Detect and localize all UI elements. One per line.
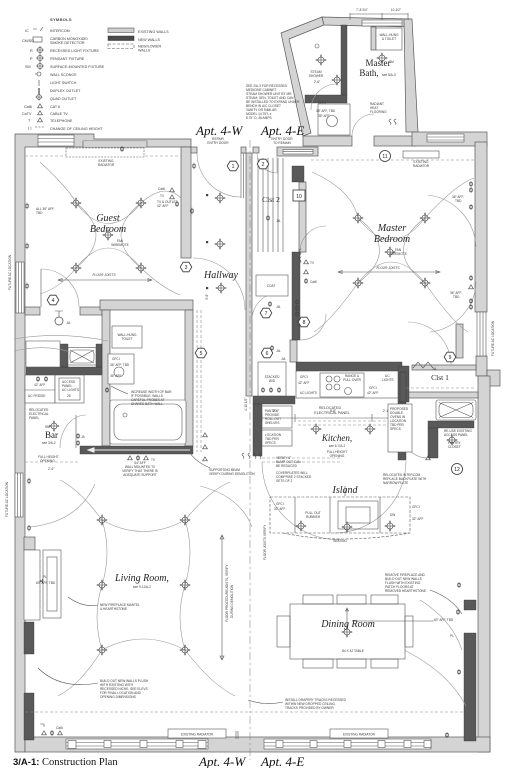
- svg-text:FUTURE AC LOCATION: FUTURE AC LOCATION: [491, 320, 495, 356]
- wall right below ac: [476, 356, 487, 376]
- svg-text:SPECS: SPECS: [265, 441, 276, 445]
- svg-text:Cat6: Cat6: [158, 187, 165, 191]
- svg-text:COAT: COAT: [267, 284, 276, 288]
- svg-text:2'-6": 2'-6": [314, 80, 320, 84]
- door arc 4E bath: [402, 432, 428, 458]
- leader supporting beam: [190, 453, 210, 468]
- svg-text:SEATING: SEATING: [333, 539, 347, 543]
- door arc master bath: [352, 114, 374, 136]
- svg-text:EXISTING RADIATOR: EXISTING RADIATOR: [343, 733, 376, 737]
- svg-text:FLOOR JOISTS VERIFY: FLOOR JOISTS VERIFY: [263, 524, 267, 560]
- svg-text:PULL OVER: PULL OVER: [343, 378, 361, 382]
- dashed clst1 mid: [406, 387, 474, 389]
- svg-text:CM/SD: CM/SD: [22, 39, 34, 43]
- island leader: [344, 486, 346, 496]
- pendant JA: [55, 311, 63, 317]
- svg-text:NEW WALLS: NEW WALLS: [138, 38, 161, 42]
- svg-text:JA: JA: [66, 321, 71, 325]
- svg-text:TOILET: TOILET: [121, 337, 132, 341]
- svg-text:4'-10 1/2": 4'-10 1/2": [244, 398, 248, 411]
- island: [270, 497, 410, 539]
- bar outlets: [76, 433, 79, 439]
- fireplace: [43, 550, 61, 618]
- svg-text:Master: Master: [377, 223, 406, 234]
- wall master bath angled: [281, 17, 324, 136]
- keynote 2: [257, 159, 269, 169]
- svg-text:Cat6: Cat6: [24, 105, 32, 109]
- svg-text:REMOVED HEARTHSTONE.: REMOVED HEARTHSTONE.: [385, 589, 427, 593]
- wall bath top: [100, 300, 193, 310]
- svg-text:SETS OF 2: SETS OF 2: [276, 479, 293, 483]
- coat closet: [256, 275, 288, 296]
- svg-text:Cat6: Cat6: [310, 280, 317, 284]
- svg-text:SURFACE-MOUNTED FIXTURE: SURFACE-MOUNTED FIXTURE: [50, 65, 105, 69]
- svg-text:SHARED BATH WALL: SHARED BATH WALL: [131, 402, 163, 406]
- svg-text:see 9-11/A-2: see 9-11/A-2: [133, 585, 151, 589]
- svg-text:TBD: TBD: [455, 199, 462, 203]
- sconce left lower 1: [27, 478, 31, 484]
- svg-text:FUTURE AC LOCATION: FUTURE AC LOCATION: [5, 481, 9, 517]
- wall bath left: [102, 310, 110, 446]
- svg-text:7'-8 3/4": 7'-8 3/4": [356, 8, 368, 12]
- window bottom left: [66, 739, 208, 749]
- switches kitchen left: [242, 453, 244, 459]
- door guest bedroom leaf: [40, 269, 42, 307]
- dashed ceiling line guest top: [25, 155, 181, 157]
- new wall clst1 left: [400, 372, 406, 402]
- svg-text:Cat6: Cat6: [56, 726, 63, 730]
- switches master bath: [389, 119, 391, 125]
- master bath toilet box: [376, 28, 402, 50]
- toilet hall bath: [112, 326, 142, 348]
- svg-text:VERIFY DURING DEMOLITION: VERIFY DURING DEMOLITION: [209, 472, 255, 476]
- svg-text:3/A-1: Construction Plan: 3/A-1: Construction Plan: [13, 757, 118, 768]
- wall clst1 bottom: [405, 392, 478, 398]
- bar leader arcs: [14, 335, 108, 341]
- star arcs living room: [58, 480, 235, 696]
- radiator master top: [403, 151, 439, 158]
- arc kitchen opening right: [334, 461, 406, 533]
- door arc clst1: [408, 322, 451, 365]
- triangles door hardware column: [203, 433, 208, 437]
- svg-text:OPENING: OPENING: [330, 454, 345, 458]
- svg-text:84 X 42 TABLE: 84 X 42 TABLE: [342, 649, 364, 653]
- fixtures hallway: [215, 193, 226, 204]
- svg-text:UC FRIDGE: UC FRIDGE: [28, 394, 46, 398]
- kitchen dimension line: [262, 414, 398, 422]
- legend walls column: [108, 28, 169, 53]
- window master bath top: [362, 20, 402, 26]
- svg-text:EXISTING WALLS: EXISTING WALLS: [138, 30, 169, 34]
- svg-text:TRACKS PROVIDED BY OWNER: TRACKS PROVIDED BY OWNER: [285, 706, 334, 710]
- apartment divider dash-dot: [249, 140, 251, 760]
- svg-text:RADIATOR: RADIATOR: [98, 163, 115, 167]
- kitchen counter top: [296, 371, 398, 398]
- svg-text:ENTRY DOOR: ENTRY DOOR: [207, 141, 229, 145]
- svg-text:CLOSET: CLOSET: [448, 445, 461, 449]
- fan dining: [342, 627, 353, 638]
- svg-text:WALLS: WALLS: [138, 49, 151, 53]
- svg-text:JA: JA: [276, 219, 281, 223]
- svg-text:6: 6: [266, 351, 269, 357]
- svg-text:Apt. 4-E: Apt. 4-E: [260, 754, 304, 768]
- svg-text:GFCI: GFCI: [276, 502, 284, 506]
- svg-text:FLOOR JOISTS: FLOOR JOISTS: [376, 266, 400, 270]
- wall bath toilet divider: [371, 27, 376, 50]
- sconces master right wall: [469, 181, 472, 187]
- bar counter boxes: [25, 375, 84, 403]
- outlets spine: [304, 260, 309, 264]
- door bifold clst1: [413, 362, 433, 368]
- svg-text:8.75" D, 36 AMPS: 8.75" D, 36 AMPS: [246, 116, 272, 120]
- pantry boxes: [262, 406, 292, 428]
- fixtures kitchen: [311, 424, 322, 435]
- svg-text:Apt. 4-W: Apt. 4-W: [198, 754, 246, 768]
- door arc guest bedroom: [41, 269, 79, 307]
- new wall bath bottom: [80, 446, 193, 454]
- window 4E entry sidelite: [283, 150, 313, 155]
- keynote 5: [195, 348, 207, 358]
- wall master bedroom top: [412, 132, 487, 146]
- svg-text:GFCI: GFCI: [300, 375, 308, 379]
- leader remove fireplace: [430, 590, 462, 614]
- svg-text:60" AFF, TBD: 60" AFF, TBD: [36, 581, 56, 585]
- svg-text:PENDANT FIXTURE: PENDANT FIXTURE: [50, 57, 85, 61]
- svg-text:see 6-7/A-2: see 6-7/A-2: [329, 444, 346, 448]
- svg-text:Bath,: Bath,: [359, 68, 378, 78]
- svg-text:FLOOR JOISTS: FLOOR JOISTS: [92, 273, 116, 277]
- svg-text:2: 2: [262, 162, 265, 168]
- outlets bath left: [105, 387, 108, 393]
- svg-text:W/REMOTE: W/REMOTE: [389, 252, 407, 256]
- radiator bottom left: [168, 729, 226, 738]
- long sweep arc dining 2: [420, 600, 462, 650]
- svg-text:& HEARTHSTONE: & HEARTHSTONE: [100, 607, 127, 611]
- svg-text:IC: IC: [25, 29, 29, 33]
- wall right lower outer: [478, 376, 490, 752]
- svg-text:42" AFF: 42" AFF: [157, 204, 168, 208]
- svg-text:2'-6": 2'-6": [48, 467, 54, 471]
- new wall 4E bath left: [428, 428, 438, 458]
- svg-text:UC LIGHTS: UC LIGHTS: [62, 388, 79, 392]
- dashed drapery line bottom: [25, 711, 464, 713]
- svg-text:& TOILET: & TOILET: [382, 37, 396, 41]
- svg-text:10: 10: [296, 194, 302, 200]
- wall clst2 right: [299, 182, 306, 252]
- wall entry top 4W: [191, 147, 197, 153]
- triangle 4E bath: [426, 456, 431, 460]
- new wall kitchen top: [296, 362, 402, 371]
- svg-text:7: 7: [265, 311, 268, 317]
- window left lower: [15, 473, 23, 517]
- svg-text:ADEQUATE SUPPORT: ADEQUATE SUPPORT: [123, 473, 157, 477]
- door arc bath hall: [193, 258, 245, 310]
- wall bottom: [25, 737, 490, 752]
- svg-text:RECESSED LIGHT FIXTURE: RECESSED LIGHT FIXTURE: [50, 49, 99, 53]
- fixtures master bedroom: [353, 213, 364, 224]
- wall master bath bottom right part: [374, 136, 416, 146]
- svg-text:Island: Island: [332, 485, 359, 496]
- svg-text:Guest: Guest: [96, 213, 120, 224]
- svg-text:ACCESS PANEL: ACCESS PANEL: [444, 433, 468, 437]
- svg-text:5: 5: [200, 351, 203, 357]
- svg-text:Living Room,: Living Room,: [114, 573, 169, 584]
- new wall spine bottom horizontal: [253, 396, 295, 404]
- triangles near bath bottom: [128, 456, 133, 460]
- clst2 shelves: [258, 158, 283, 252]
- dashed hallway pair: [197, 310, 201, 452]
- svg-text:OPENING DIMENSIONS: OPENING DIMENSIONS: [100, 695, 136, 699]
- window top-left: [38, 135, 74, 146]
- new wall 4E bath bottom: [428, 421, 474, 428]
- star arcs master bedroom: [312, 172, 476, 332]
- svg-text:LIGHTS: LIGHTS: [382, 378, 394, 382]
- svg-text:Hallway: Hallway: [203, 270, 238, 281]
- window right ac: [477, 312, 486, 356]
- wall master bath top: [322, 17, 410, 27]
- svg-text:JA: JA: [432, 367, 437, 371]
- dashed ceiling line master top: [311, 159, 476, 161]
- bar white panel: [26, 341, 60, 367]
- svg-text:38" AFF, TBD: 38" AFF, TBD: [316, 109, 336, 113]
- radiator guest top: [66, 148, 144, 157]
- svg-text:SHOWER: SHOWER: [309, 74, 324, 78]
- door arc master lower: [300, 314, 326, 340]
- svg-text:4: 4: [52, 298, 55, 304]
- svg-text:36" AFF, TBD: 36" AFF, TBD: [110, 363, 130, 367]
- svg-text:32" AFF: 32" AFF: [412, 517, 423, 521]
- wall right bump: [487, 370, 500, 386]
- svg-text:WALL SCONCE: WALL SCONCE: [50, 73, 77, 77]
- bar fixture: [49, 421, 60, 432]
- new wall kitchen right: [398, 366, 409, 402]
- dashed uc lights kitchen: [298, 421, 396, 425]
- keynote 4: [47, 295, 59, 305]
- arc living top right: [200, 486, 252, 527]
- master bath vanity: [318, 104, 350, 135]
- svg-text:W/REMOTE: W/REMOTE: [111, 243, 129, 247]
- star arcs guest bedroom: [40, 162, 181, 295]
- keynote 11: [380, 151, 391, 162]
- svg-text:see 3/A-2: see 3/A-2: [42, 441, 56, 445]
- svg-text:INTERCOM: INTERCOM: [50, 29, 70, 33]
- triangles guest top right: [170, 188, 175, 192]
- svg-text:Master: Master: [366, 58, 391, 68]
- svg-text:JA: JA: [276, 349, 281, 353]
- svg-text:TELEPHONE: TELEPHONE: [50, 119, 73, 123]
- svg-text:36" AFF: 36" AFF: [318, 114, 329, 118]
- svg-text:Dining Room: Dining Room: [320, 619, 375, 630]
- note medicine cabinet block: [246, 84, 300, 120]
- wall spine mid lower gray: [290, 340, 297, 362]
- svg-text:PL: PL: [43, 575, 47, 579]
- svg-text:32" AFF: 32" AFF: [274, 507, 285, 511]
- door arc bath shower: [311, 84, 337, 110]
- svg-text:GFCI: GFCI: [412, 505, 420, 509]
- new wall lower right inner: [464, 600, 476, 741]
- svg-text:GFCI: GFCI: [369, 386, 377, 390]
- svg-text:Bar: Bar: [45, 430, 58, 440]
- svg-text:( ): ( ): [28, 126, 31, 130]
- svg-text:GFCI: GFCI: [318, 101, 326, 105]
- keynote 7: [260, 308, 272, 318]
- svg-text:3: 3: [185, 265, 188, 271]
- svg-text:12: 12: [454, 467, 460, 473]
- svg-text:36" AFF: 36" AFF: [110, 374, 121, 378]
- svg-text:TBD: TBD: [453, 295, 460, 299]
- wall master bath right: [404, 19, 418, 132]
- long sweep arc dining: [404, 650, 466, 706]
- svg-text:LIGHT SWITCH: LIGHT SWITCH: [50, 81, 77, 85]
- new wall spine upper: [292, 166, 304, 182]
- wall guest right: [181, 147, 191, 258]
- svg-text:Apt. 4-E: Apt. 4-E: [260, 123, 304, 138]
- svg-text:SPECS: SPECS: [390, 427, 401, 431]
- svg-text:2'-1": 2'-1": [273, 409, 279, 413]
- svg-text:SHELVES: SHELVES: [265, 421, 279, 425]
- door arc master bedroom: [300, 226, 326, 252]
- fixtures living room: [97, 515, 108, 526]
- svg-text:DW: DW: [390, 513, 395, 517]
- dashed kitchen opening: [262, 458, 340, 462]
- svg-text:42" AFF: 42" AFF: [34, 383, 45, 387]
- svg-text:UC LIGHTS: UC LIGHTS: [300, 391, 317, 395]
- wall left bump: [24, 537, 35, 550]
- fixture master bath: [332, 75, 343, 86]
- new wall spine mid: [292, 252, 300, 340]
- svg-text:FLOORING: FLOORING: [370, 110, 387, 114]
- arrow on bath band: [88, 448, 190, 452]
- new wall bath divider vertical: [341, 25, 347, 95]
- shower head circle: [315, 44, 319, 48]
- fireplace niche: [24, 550, 40, 620]
- dining table: [277, 595, 413, 668]
- fixtures guest bedroom: [71, 198, 82, 209]
- svg-text:Bedroom: Bedroom: [90, 224, 126, 235]
- outlet bottom right: [445, 732, 448, 738]
- svg-text:R: R: [30, 49, 33, 53]
- svg-text:26: 26: [67, 394, 71, 398]
- svg-text:SMOKE DETECTOR: SMOKE DETECTOR: [50, 41, 85, 45]
- svg-text:FUTURE AC LOCATION: FUTURE AC LOCATION: [8, 254, 12, 290]
- svg-text:RUBBISH: RUBBISH: [306, 515, 321, 519]
- radiator bottom right: [330, 729, 388, 738]
- keynote 12: [452, 464, 463, 475]
- svg-text:11: 11: [382, 154, 387, 160]
- svg-text:PL: PL: [450, 634, 454, 638]
- wall master bedroom right: [475, 142, 487, 312]
- svg-text:JA: JA: [276, 305, 281, 309]
- fixture 4E bath: [447, 435, 458, 446]
- sconce symbols left wall: [25, 203, 29, 209]
- svg-text:3'-6": 3'-6": [205, 294, 209, 300]
- svg-text:Apt. 4-W: Apt. 4-W: [195, 123, 243, 138]
- svg-text:SM: SM: [45, 425, 50, 429]
- keynote 10: [293, 190, 305, 201]
- wall guest bottom left: [25, 307, 40, 315]
- svg-text:PANEL: PANEL: [29, 416, 39, 420]
- new wall kitchen right lower: [398, 402, 406, 460]
- wall spine left: [246, 153, 252, 396]
- sconce niche: [40, 576, 51, 587]
- switches master bedroom wall: [299, 249, 301, 255]
- svg-text:EXISTING RADIATOR: EXISTING RADIATOR: [181, 733, 214, 737]
- fixtures island: [296, 521, 307, 532]
- svg-text:TBD: TBD: [36, 211, 43, 215]
- svg-text:1: 1: [232, 164, 235, 170]
- svg-text:SM: SM: [25, 65, 31, 69]
- svg-text:JA: JA: [281, 357, 286, 361]
- window master bedroom top: [427, 134, 464, 142]
- arc kitchen opening left: [262, 462, 340, 540]
- fan master: [385, 247, 396, 258]
- svg-text:GFCI: GFCI: [112, 357, 120, 361]
- wall guest bottom right: [80, 307, 102, 315]
- vanity hall bath: [108, 354, 134, 384]
- wall top guest: [15, 134, 191, 752]
- svg-text:42" AFF: 42" AFF: [298, 381, 309, 385]
- svg-text:TO REMAIN: TO REMAIN: [273, 141, 291, 145]
- svg-text:RADIATOR: RADIATOR: [413, 164, 430, 168]
- symbols bottom left: [42, 731, 47, 735]
- window top second: [83, 141, 147, 147]
- bathtub hall bath: [110, 400, 186, 444]
- svg-text:CaTV: CaTV: [22, 112, 32, 116]
- svg-text:Clst 1: Clst 1: [431, 373, 449, 382]
- keynote 6: [261, 348, 273, 358]
- keynote 9: [444, 352, 456, 362]
- fixture master bath shower: [316, 55, 327, 66]
- svg-text:DURING DEMOLITION: DURING DEMOLITION: [230, 584, 234, 618]
- svg-text:10-1/2": 10-1/2": [391, 8, 401, 12]
- fan guest: [103, 230, 114, 241]
- svg-text:Kitchen,: Kitchen,: [321, 433, 352, 443]
- svg-text:9: 9: [449, 355, 452, 361]
- stacked wd: [258, 362, 286, 396]
- keynote 3: [180, 262, 192, 272]
- sconces guest right wall: [192, 163, 196, 169]
- svg-text:OPENING: OPENING: [40, 459, 55, 463]
- door leaf entry 4W: [241, 153, 244, 198]
- new wall spine bottom vertical: [253, 404, 262, 456]
- wall entry top 4E: [253, 147, 259, 153]
- svg-text:CHANGE OF CEILING HEIGHT: CHANGE OF CEILING HEIGHT: [50, 127, 103, 131]
- door arc entry 4E: [257, 153, 277, 173]
- svg-text:9'-8": 9'-8": [330, 409, 336, 413]
- 4E bathtub: [436, 400, 476, 420]
- svg-text:60" AFF, TBD: 60" AFF, TBD: [434, 618, 454, 622]
- dashed line living top: [25, 461, 80, 463]
- svg-text:FLOOR PROCEDURE/JOISTS, VERIFY: FLOOR PROCEDURE/JOISTS, VERIFY: [225, 564, 229, 622]
- fixture hall bath: [143, 413, 154, 424]
- svg-text:CABLE TV: CABLE TV: [50, 112, 68, 116]
- svg-text:W/D: W/D: [269, 379, 276, 383]
- new wall bath vanity top: [305, 95, 347, 103]
- bar door arc: [60, 415, 86, 448]
- door arc entry 4W: [197, 153, 241, 197]
- svg-text:see 5/A-3: see 5/A-3: [382, 73, 396, 77]
- keynote 8: [298, 317, 310, 327]
- svg-text:DUPLEX OUTLET: DUPLEX OUTLET: [50, 89, 81, 93]
- wall bath right: [185, 310, 193, 446]
- window left upper: [16, 262, 24, 313]
- wall master bath bottom left part: [303, 136, 352, 146]
- bar sink: [68, 348, 96, 366]
- svg-text:8: 8: [303, 320, 306, 326]
- keynote 1: [227, 161, 239, 171]
- bar door leaf: [75, 415, 77, 448]
- svg-text:Clst 2: Clst 2: [262, 195, 280, 204]
